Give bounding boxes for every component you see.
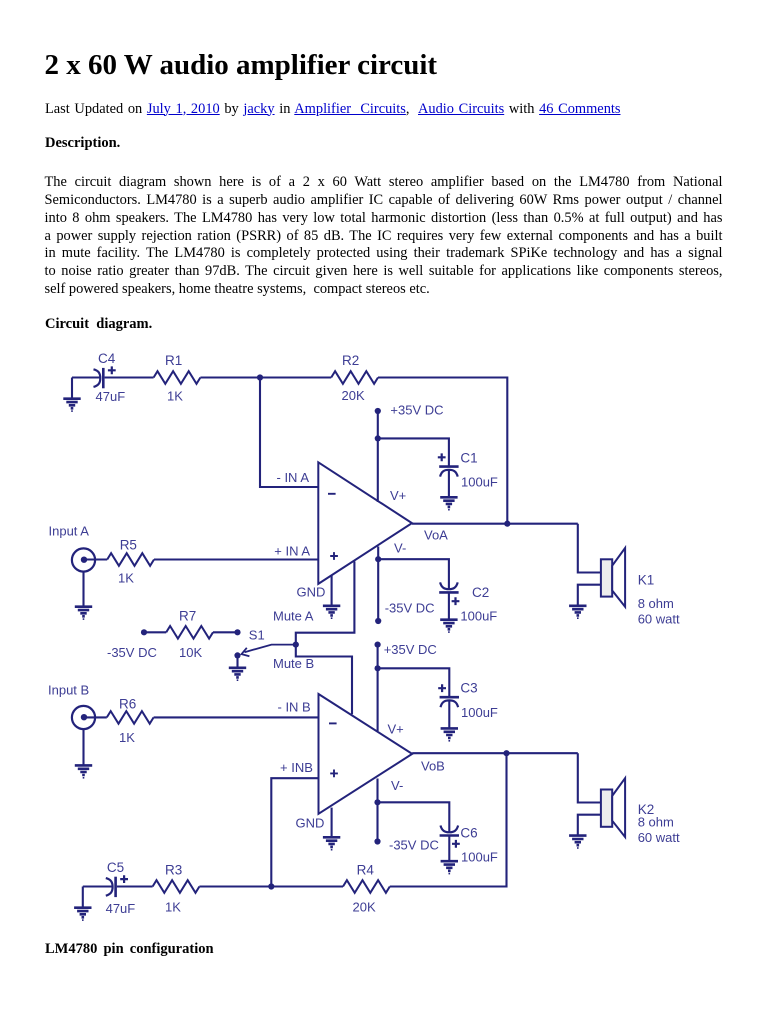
junction +35V terminal A <box>375 408 381 414</box>
svg-text:R7: R7 <box>179 608 196 623</box>
svg-text:Input A: Input A <box>49 524 90 539</box>
svg-text:V-: V- <box>391 778 403 793</box>
capacitor C5 47uF <box>114 877 117 897</box>
ground G10 (op-amp B) <box>323 837 340 847</box>
ground G1 (C4) <box>63 399 80 409</box>
svg-text:60 watt: 60 watt <box>638 830 680 845</box>
svg-text:+ INB: + INB <box>280 760 313 775</box>
svg-text:VoA: VoA <box>424 527 448 542</box>
wire S1 to ground <box>236 655 238 668</box>
op-amp U1B minus mark <box>329 722 337 724</box>
svg-text:V-: V- <box>394 541 406 556</box>
svg-text:- IN A: - IN A <box>277 470 310 485</box>
svg-text:V+: V+ <box>390 488 406 503</box>
wire bottom node to +IN B <box>271 778 318 886</box>
wire GND pin B <box>331 808 333 837</box>
svg-text:1K: 1K <box>118 571 134 586</box>
wire C6 to ground <box>448 836 450 862</box>
junction node output B <box>503 750 509 756</box>
svg-text:Input B: Input B <box>48 682 89 697</box>
svg-text:+35V DC: +35V DC <box>384 642 437 657</box>
wire C4 to R1 <box>105 376 154 378</box>
speaker K2 <box>601 790 612 827</box>
capacitor C4 47uF <box>102 368 105 388</box>
resistor R3 1K <box>153 880 200 893</box>
plus mark C6 polarity <box>452 840 460 848</box>
svg-text:47uF: 47uF <box>106 901 136 916</box>
wire to K2 +terminal <box>578 753 601 802</box>
ground G13 (C5) <box>74 908 91 918</box>
wire branch to C3 <box>378 668 450 697</box>
svg-text:C5: C5 <box>107 860 124 875</box>
svg-text:R4: R4 <box>357 862 375 877</box>
svg-text:- IN B: - IN B <box>278 700 311 715</box>
resistor R7 10K <box>166 626 213 639</box>
svg-text:C2: C2 <box>472 585 489 600</box>
svg-text:V+: V+ <box>388 722 404 737</box>
ground G3 (jack A) <box>75 607 92 617</box>
junction node V+ / C3 <box>375 665 381 671</box>
ground G9 (jack B) <box>75 765 92 775</box>
switch S1 arrowhead <box>242 648 250 656</box>
svg-text:100uF: 100uF <box>461 705 498 720</box>
plus mark C3 polarity <box>438 684 446 692</box>
ground G11 (K2) <box>569 836 586 846</box>
svg-text:60 watt: 60 watt <box>638 611 680 626</box>
resistor R1 1K <box>154 371 201 384</box>
switch S1 arm <box>245 645 296 653</box>
junction S1 upper contact <box>234 629 240 635</box>
wire R2 to output node A <box>378 378 507 524</box>
resistor R4 20K <box>343 880 390 893</box>
junction node output A <box>504 521 510 527</box>
wire jack A to ground <box>82 572 84 607</box>
wire +35V to V+ pin B <box>377 645 379 731</box>
wire C2 to ground <box>448 592 450 619</box>
op-amp U1B triangle <box>319 694 413 814</box>
wire output B <box>412 752 578 754</box>
junction -35V terminal (R7) <box>141 629 147 635</box>
wire -35V to R7 <box>144 631 166 633</box>
wire GND pin A <box>331 575 333 606</box>
wire R7 to S1 <box>213 631 238 633</box>
section heading Description <box>45 135 120 152</box>
wire jack A to R5 <box>87 558 107 560</box>
wire K1 -terminal to ground <box>578 585 601 606</box>
input jack J2 Input B <box>72 706 95 729</box>
wire R3 to R4 <box>199 885 343 887</box>
body paragraph <box>45 174 723 298</box>
svg-text:R2: R2 <box>342 353 359 368</box>
wire jack B to ground <box>82 729 84 765</box>
resistor R2 20K <box>331 371 378 384</box>
svg-text:1K: 1K <box>167 389 183 404</box>
ground G5 (C2) <box>440 620 457 630</box>
svg-text:47uF: 47uF <box>96 389 126 404</box>
wire branch to C1 <box>378 438 449 467</box>
wire C5 to R3 <box>117 885 153 887</box>
wire G13 to C5 <box>83 885 113 887</box>
ground G6 (op-amp A) <box>323 606 340 616</box>
wire K2 -terminal to ground <box>578 815 601 836</box>
svg-text:100uF: 100uF <box>460 609 497 624</box>
wire V- pin B rail <box>376 779 378 842</box>
resistor R6 1K <box>107 711 154 724</box>
op-amp U1B plus mark <box>330 770 338 778</box>
junction S1 lower contact <box>234 652 240 658</box>
plus mark C5 polarity <box>120 875 128 883</box>
svg-text:+ IN A: + IN A <box>274 543 310 558</box>
wire +35V to V+ pin A <box>377 411 379 502</box>
wire C1 to ground <box>448 470 450 497</box>
junction node feedback A <box>257 374 263 380</box>
svg-text:20K: 20K <box>353 900 376 915</box>
svg-text:100uF: 100uF <box>461 850 498 865</box>
wire C5 ground stub <box>82 887 84 909</box>
svg-text:S1: S1 <box>249 627 265 642</box>
ground G2 (C1) <box>440 497 457 507</box>
svg-text:GND: GND <box>297 585 326 600</box>
ground G7 (S1) <box>229 668 246 678</box>
svg-text:Mute B: Mute B <box>273 656 314 671</box>
op-amp U1A minus mark <box>328 493 336 495</box>
input jack J1 Input A <box>72 548 95 571</box>
svg-text:+35V DC: +35V DC <box>390 403 443 418</box>
wire output A <box>412 523 578 525</box>
svg-text:R5: R5 <box>120 538 137 553</box>
plus mark C1 polarity <box>438 453 446 461</box>
svg-text:K1: K1 <box>638 573 655 588</box>
svg-text:C4: C4 <box>98 351 116 366</box>
wire branch to C2 <box>378 559 449 589</box>
svg-text:C1: C1 <box>460 451 477 466</box>
svg-text:R3: R3 <box>165 862 182 877</box>
byline <box>45 101 621 118</box>
svg-text:C3: C3 <box>460 681 477 696</box>
wire C3 to ground <box>448 701 450 728</box>
wire V- pin A rail <box>377 547 379 622</box>
svg-text:8 ohm: 8 ohm <box>638 596 674 611</box>
svg-text:-35V DC: -35V DC <box>107 645 157 660</box>
svg-text:-35V DC: -35V DC <box>385 601 435 616</box>
plus mark C2 polarity <box>452 597 460 605</box>
section heading LM4780 pin configuration <box>45 941 214 958</box>
junction node V+ / C1 <box>375 435 381 441</box>
svg-text:C6: C6 <box>460 825 477 840</box>
op-amp U1A triangle <box>318 462 412 584</box>
wire branch to C6 <box>378 802 450 832</box>
junction -35V terminal B <box>374 838 380 844</box>
capacitor C3 100uF <box>440 696 459 699</box>
svg-text:R6: R6 <box>119 697 136 712</box>
svg-text:Mute A: Mute A <box>273 609 314 624</box>
junction node V- / C2 <box>375 556 381 562</box>
svg-text:8 ohm: 8 ohm <box>638 815 674 830</box>
svg-text:GND: GND <box>296 816 325 831</box>
ground G8 (C3) <box>441 728 458 738</box>
ground G4 (K1) <box>569 606 586 616</box>
wire to K1 +terminal <box>578 524 601 573</box>
wire R6 to -IN B <box>154 716 319 718</box>
junction +35V terminal B <box>375 642 381 648</box>
svg-text:R1: R1 <box>165 353 182 368</box>
section heading Circuit diagram <box>45 316 152 333</box>
wire C4 ground stub <box>71 378 73 400</box>
page title <box>45 49 438 82</box>
capacitor C6 100uF <box>440 834 459 837</box>
svg-text:VoB: VoB <box>421 759 445 774</box>
wire mute A / mute B bus <box>296 561 355 714</box>
speaker K1 <box>601 559 612 596</box>
wire jack B to R6 <box>87 716 107 718</box>
svg-text:10K: 10K <box>179 645 202 660</box>
svg-text:20K: 20K <box>342 388 365 403</box>
junction node feedback B <box>268 883 274 889</box>
wire feedback to -IN A <box>260 378 318 488</box>
junction node V- / C6 <box>374 799 380 805</box>
svg-text:-35V DC: -35V DC <box>389 838 439 853</box>
svg-text:100uF: 100uF <box>461 475 498 490</box>
junction -35V terminal A <box>375 618 381 624</box>
capacitor C2 100uF <box>439 591 458 594</box>
capacitor C1 100uF <box>439 465 458 468</box>
plus mark C4 polarity <box>108 366 116 374</box>
wire R1 to R2 <box>200 376 331 378</box>
resistor R5 1K <box>107 553 154 566</box>
op-amp U1A plus mark <box>330 552 338 560</box>
junction node mute bus <box>293 642 299 648</box>
svg-text:1K: 1K <box>119 730 135 745</box>
wire R5 to +IN A <box>154 558 318 560</box>
wire R4 to output node B <box>390 753 507 886</box>
ground G12 (C6) <box>441 861 458 871</box>
svg-text:1K: 1K <box>165 900 181 915</box>
wire G1 to C4 <box>72 376 100 378</box>
